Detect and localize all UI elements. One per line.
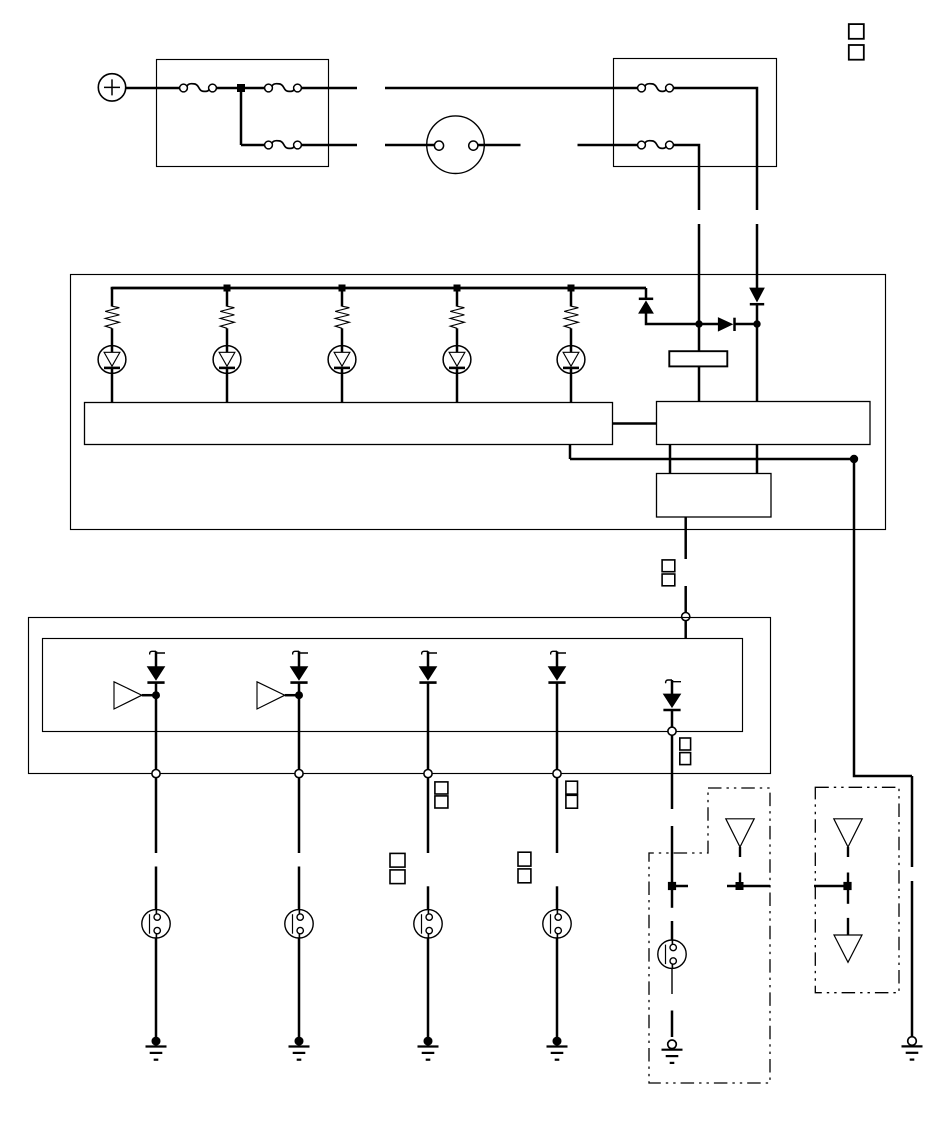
relay coil	[669, 351, 727, 366]
sub circuit board	[657, 474, 772, 518]
diode ID5	[663, 694, 680, 710]
ground G5	[662, 1040, 683, 1063]
wire branch 5 junction stub	[672, 885, 688, 888]
wire resistor to LED 4	[456, 328, 459, 352]
connector squares branch 4 break	[518, 852, 531, 883]
wire antenna 2 stub	[847, 847, 849, 857]
wire LED to circuit board 1	[111, 368, 114, 403]
diode D2 (pointing right)	[718, 318, 734, 331]
node bus junction 4	[454, 285, 461, 292]
wire ignition switch output	[478, 144, 521, 147]
wire terminal into inner board	[684, 621, 687, 638]
printed circuit board (left)	[85, 403, 613, 445]
wire branch 4 below unit	[556, 778, 559, 853]
switch washer level switch	[414, 910, 442, 938]
indicator hook terminal 4	[551, 651, 566, 654]
node junction right drop	[753, 320, 760, 327]
resistor R5	[564, 306, 578, 328]
switch parking brake switch	[285, 910, 313, 938]
fuse F3	[265, 141, 302, 149]
wire dimming unit to sub-board (left)	[669, 445, 672, 473]
wire bus to resistor 3	[341, 288, 344, 307]
indicator inner board	[43, 639, 743, 732]
wire to under-dash fuse box (top feed)	[385, 87, 638, 90]
wire diode to output 3	[427, 683, 430, 770]
wire hook to diode 1	[155, 651, 158, 667]
fuse F2	[265, 84, 302, 92]
dimming control unit (right)	[657, 402, 871, 445]
wire LED to circuit board 3	[341, 368, 344, 403]
indicator hook terminal 3	[422, 651, 437, 654]
wire resistor to LED 3	[341, 328, 344, 352]
wire branch 5 below break	[671, 826, 674, 882]
node driver junction 1	[152, 691, 160, 699]
connector squares branch 3 break	[390, 853, 405, 883]
wire right drop to dimming unit	[756, 303, 759, 401]
wire LED to circuit board 4	[456, 368, 459, 403]
connector squares feed wire	[662, 560, 675, 586]
wire fuse F4 to drop	[673, 88, 757, 210]
wire switch 5 to ground	[671, 969, 673, 995]
wire LED to circuit board 2	[226, 368, 229, 403]
driver triangle 2	[257, 682, 285, 709]
resistor R3	[335, 306, 349, 328]
wire branch 3 below unit	[427, 778, 430, 853]
wire PCB ground stub	[569, 445, 572, 459]
wire fuse F3 to ignition switch	[302, 144, 358, 147]
wire junction to diode D2	[699, 323, 719, 326]
wire switch 1 to ground	[155, 938, 158, 1037]
ground G3	[418, 1037, 439, 1060]
wire switch 4 to ground	[556, 938, 559, 1037]
option unit box (dash-dot, stepped)	[649, 788, 770, 1083]
wire antenna 1 stub	[739, 847, 741, 857]
wire battery to fuse box	[126, 87, 180, 90]
wire fuse F5 to drop	[673, 145, 699, 210]
node driver junction 2	[295, 691, 303, 699]
resistor R1	[105, 306, 119, 328]
LED indicator L1	[98, 346, 126, 374]
ground G2	[289, 1037, 310, 1060]
gauge assembly box	[71, 275, 886, 530]
LED indicator L4	[443, 346, 471, 374]
fuse F1	[180, 84, 217, 92]
node branch 5 junction	[668, 882, 676, 890]
antenna triangle option 1	[726, 819, 754, 847]
wire gauge ground run	[854, 459, 912, 776]
switch brake fluid switch	[142, 910, 170, 938]
wire option 1 junction	[727, 885, 770, 888]
resistor R4	[450, 306, 464, 328]
node terminal circle on unit edge	[682, 613, 690, 621]
fuse F5	[638, 141, 674, 149]
wire drop into gauge box (left)	[698, 224, 701, 351]
ground G4	[547, 1037, 568, 1060]
diode ID4	[548, 667, 565, 683]
wire bus corner to diode D1	[645, 288, 648, 299]
wire resistor to LED 1	[111, 328, 114, 352]
node terminal circle 3	[424, 770, 432, 778]
LED indicator L2	[213, 346, 241, 374]
wire option 2 down stub	[847, 890, 849, 904]
ground G1	[146, 1037, 167, 1060]
wire junction drop	[240, 87, 243, 145]
antenna triangle option 2	[834, 819, 862, 847]
wire diode to output 4	[556, 683, 559, 770]
wire option 2 junction	[814, 885, 851, 888]
wire feed to turn signal unit	[684, 586, 687, 612]
node terminal circle 4	[553, 770, 561, 778]
indicator hook terminal 1	[150, 651, 165, 654]
junction node	[237, 84, 245, 92]
wire drop into gauge box (right)	[756, 224, 759, 289]
wire resistor to LED 2	[226, 328, 229, 352]
wire driver to node 1	[142, 694, 153, 697]
wire bus to resistor 1	[111, 288, 114, 307]
wire driver to node 2	[285, 694, 296, 697]
diode ID1	[147, 667, 164, 683]
LED indicator L3	[328, 346, 356, 374]
wire diode D1 to junction	[646, 313, 699, 324]
node bus junction 5	[568, 285, 575, 292]
wire resistor to LED 5	[570, 328, 573, 352]
wire relay coil to dimming unit	[698, 366, 701, 401]
wire hook to diode 4	[556, 651, 559, 667]
wire diode 5 to terminal	[671, 710, 674, 727]
diode ID2	[290, 667, 307, 683]
node junction at relay feed	[695, 320, 702, 327]
LED indicator L5	[557, 346, 585, 374]
indicator unit box	[29, 618, 771, 774]
connector squares branch 5	[680, 738, 691, 765]
node terminal circle 1	[152, 770, 160, 778]
node option 1 junction	[736, 882, 744, 890]
wire hook to diode 2	[298, 651, 301, 667]
wire branch 2 below unit	[298, 778, 301, 853]
wire switch 2 to ground	[298, 938, 301, 1037]
wire diode to output 2	[298, 683, 301, 770]
under-hood fuse box	[157, 60, 329, 167]
wire ground run down	[911, 776, 914, 867]
driver triangle 1	[114, 682, 142, 709]
node gauge ground junction	[850, 455, 858, 463]
wire branch 1 below unit	[155, 778, 158, 853]
ignition switch	[427, 116, 485, 174]
wire branch 5 down	[671, 735, 674, 809]
switch oil pressure switch	[658, 940, 686, 968]
resistor R2	[220, 306, 234, 328]
wire bus to resistor 4	[456, 288, 459, 307]
wire junction to fuse F2	[244, 87, 265, 90]
wire bus to resistor 5	[570, 288, 573, 307]
wire bus to resistor 2	[226, 288, 229, 307]
indicator hook terminal 2	[293, 651, 308, 654]
wire switch 3 to ground	[427, 938, 430, 1037]
under-dash fuse box	[614, 59, 777, 167]
node terminal circle 5	[668, 727, 676, 735]
wire hook to diode 3	[427, 651, 430, 667]
option unit box 2 (dash-dot)	[815, 787, 899, 992]
indicator hook terminal 5	[666, 680, 681, 683]
connector squares branch 4 terminal	[566, 781, 578, 808]
wire diode D2 to right drop	[735, 323, 758, 326]
diode ID3	[419, 667, 436, 683]
wire branch 5 to switch	[671, 890, 674, 908]
lamp supply bus	[112, 287, 646, 288]
wire diode to output 1	[155, 683, 158, 770]
connector squares top right	[849, 24, 864, 60]
wire junction to fuse F3	[241, 144, 265, 147]
switch coolant level switch	[543, 910, 571, 938]
wire LED to circuit board 5	[570, 368, 573, 403]
wire gauge ground bus	[570, 458, 854, 461]
ground G6	[902, 1037, 923, 1060]
connector squares branch 3 terminal	[435, 782, 448, 808]
wire sub board output	[684, 517, 687, 559]
node option 2 junction	[843, 882, 851, 890]
wire hook to diode 5	[671, 680, 674, 694]
node terminal circle 2	[295, 770, 303, 778]
diode D3 (pointing down)	[750, 288, 764, 304]
wire dimming unit to sub-board (right)	[756, 445, 759, 473]
node bus junction 3	[339, 285, 346, 292]
down triangle option 2	[834, 935, 862, 962]
wire fuse F2 right (hot bus)	[302, 87, 358, 90]
fuse F4	[638, 84, 674, 92]
node bus junction 2	[224, 285, 231, 292]
diode D1 (pointing up)	[639, 299, 653, 313]
wire link between boards	[613, 422, 656, 425]
wire fuse F1 to junction	[217, 87, 239, 90]
battery positive terminal	[98, 74, 125, 101]
